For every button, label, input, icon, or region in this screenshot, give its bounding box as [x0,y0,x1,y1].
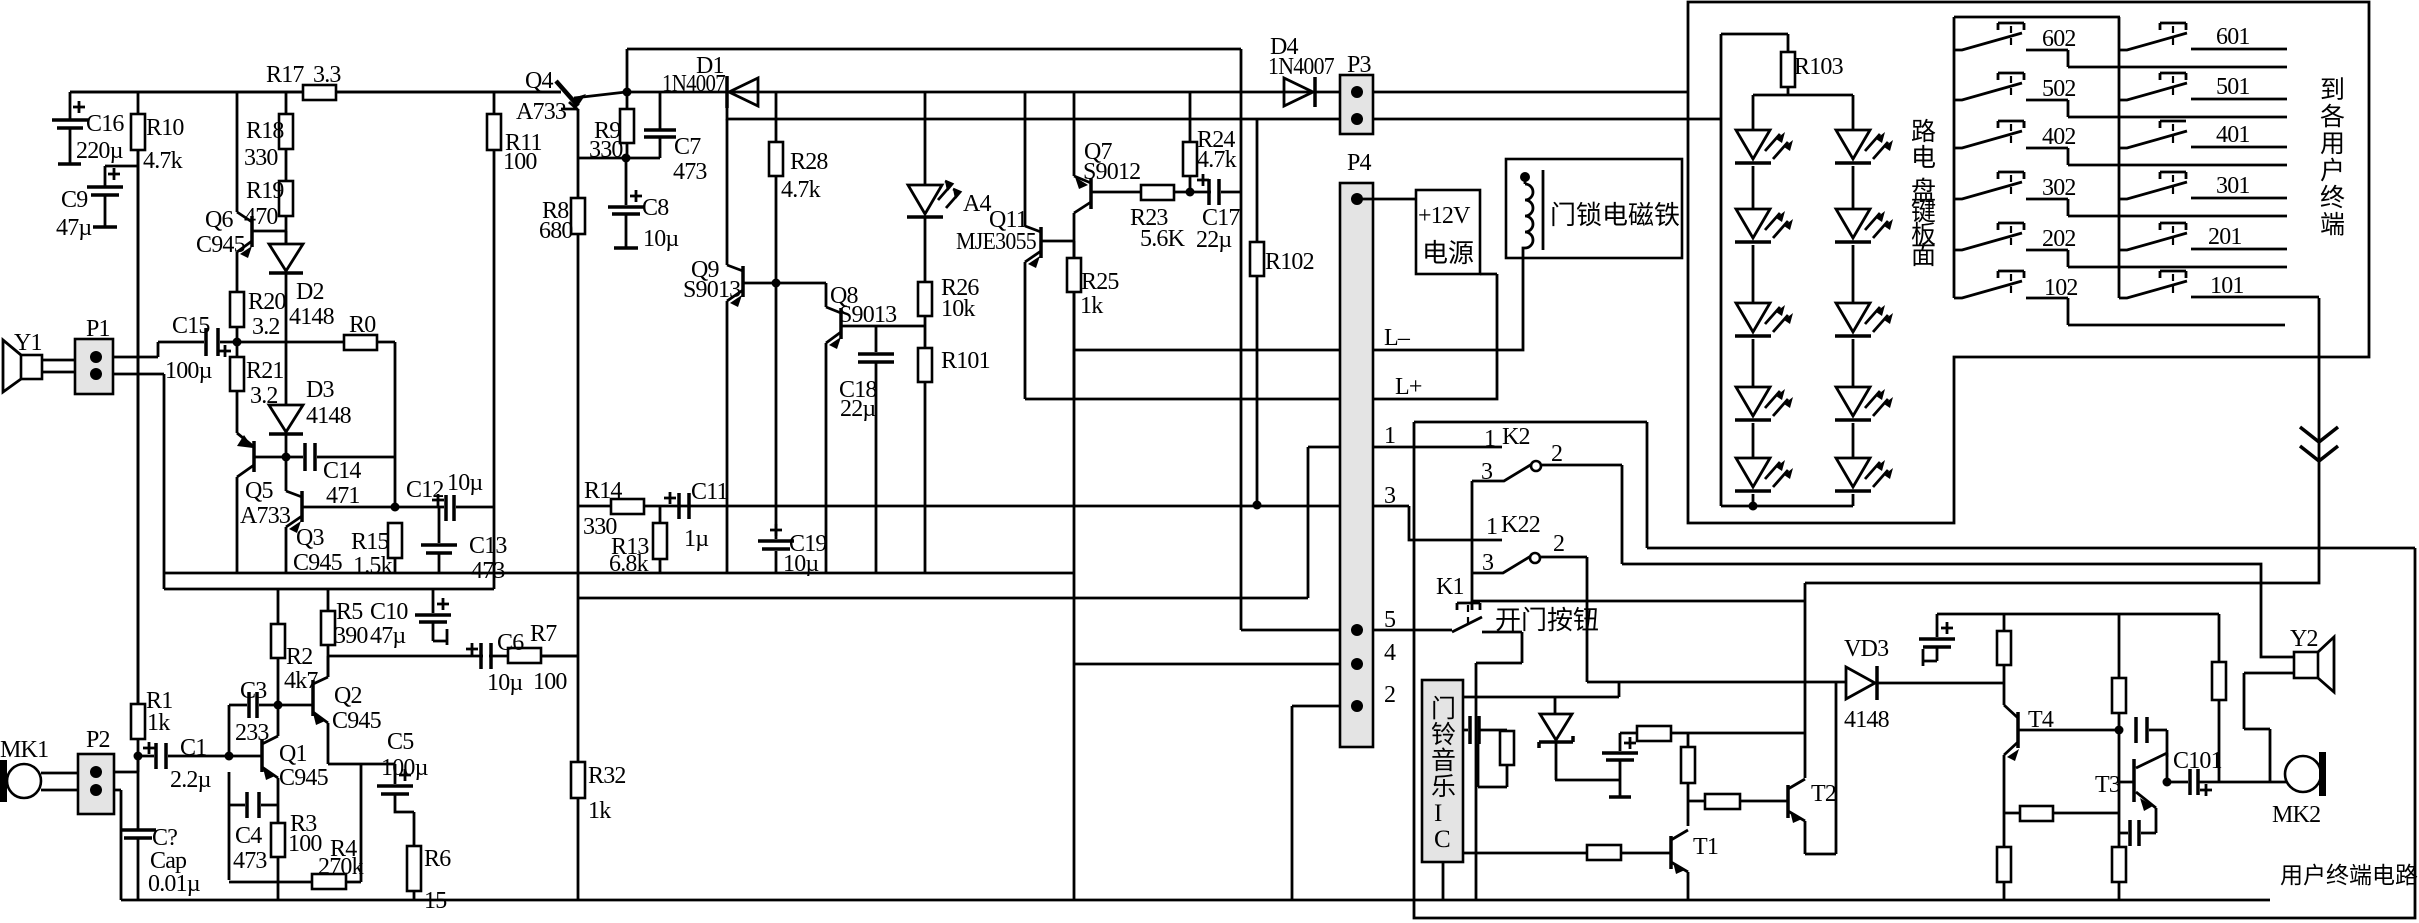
svg-text:15: 15 [424,888,447,914]
svg-text:R6: R6 [424,846,451,872]
resistor R32 [571,762,585,798]
svg-text:用: 用 [2320,131,2345,158]
wire inner-left rail x1721 [1720,34,1723,506]
solenoid coil [1542,170,1545,250]
svg-text:R21: R21 [246,358,284,384]
svg-text:233: 233 [235,720,269,746]
svg-text:4148: 4148 [1844,707,1890,733]
switch K22 [1473,556,1531,573]
resistor R13 [659,506,662,523]
wire riser x494 C12-wire to rail B [493,508,496,589]
svg-text:6.8k: 6.8k [609,551,649,577]
svg-text:Q4: Q4 [525,68,554,94]
svg-text:4148: 4148 [306,403,352,429]
resistor R24 [1189,92,1192,192]
wire P4 pin1 to +12V box [1357,198,1416,201]
capacitor C15 on wire y342 [158,341,237,344]
svg-text:390: 390 [334,623,368,649]
svg-text:100: 100 [503,149,537,175]
svg-text:47µ: 47µ [56,215,92,241]
svg-text:到: 到 [2320,77,2345,104]
wire K2-3 to K22-3 to K1 x1472 [1471,481,1474,603]
switch 201 [2160,223,2186,230]
svg-text:开门按钮: 开门按钮 [1495,606,1599,635]
capacitor C13 [438,507,441,543]
svg-text:S9012: S9012 [1083,159,1140,185]
svg-text:4.7k: 4.7k [781,177,821,203]
user terminal block outline [1414,422,2415,918]
svg-text:270k: 270k [318,854,364,880]
capacitor C16 [69,92,72,119]
wire W2 second rail y119 [727,107,1721,119]
svg-text:K22: K22 [1501,512,1540,538]
svg-text:R14: R14 [584,478,622,504]
wire T2 emitter link [1805,683,1836,854]
LED column stems [1752,95,1755,506]
svg-text:端: 端 [2320,211,2345,239]
svg-text:1N4007: 1N4007 [662,71,726,97]
svg-text:1N4007: 1N4007 [1268,54,1335,80]
svg-text:电: 电 [1911,144,1936,172]
resistor R25 [1073,241,1076,258]
node junction T4 base/R/cap [2115,726,2124,735]
svg-text:MJE3055: MJE3055 [956,229,1037,255]
svg-text:R18: R18 [246,118,284,144]
resistor R9 [626,92,629,158]
microphone MK1 [0,760,7,802]
svg-text:471: 471 [326,483,360,509]
svg-text:终: 终 [2320,184,2345,212]
LED A4 [924,92,927,185]
svg-text:402: 402 [2042,124,2076,150]
svg-text:C: C [1434,826,1451,853]
node junction R1/C1 [134,752,143,761]
wire T2 collector column x1805 [1804,583,1807,778]
doorbell music IC box 门铃音乐IC [1422,680,1463,862]
switch 301 [2160,172,2186,179]
svg-text:22µ: 22µ [840,396,876,422]
wire column x1075 (Q7/R25/L+) down to bus [1073,92,1076,900]
svg-text:乐: 乐 [1431,773,1456,801]
capacitor C101 on wire y782 [2167,781,2286,784]
svg-text:MK1: MK1 [0,737,48,763]
switch 501 [2160,73,2186,80]
svg-text:201: 201 [2208,224,2242,250]
svg-text:100µ: 100µ [165,358,213,384]
wire Q2 emitter leg [328,764,395,882]
svg-text:+12V: +12V [1418,203,1471,229]
transistor Q8 [826,283,841,573]
node junction R9 bottom [622,154,631,163]
svg-text:1: 1 [1486,514,1497,540]
svg-text:C101: C101 [2173,748,2222,774]
svg-text:R19: R19 [246,178,284,204]
connector P2 [78,754,114,814]
diode D3 [269,342,303,432]
SWITCH ARRAY [1954,17,2120,298]
svg-text:0.01µ: 0.01µ [148,871,201,897]
svg-text:Y1: Y1 [14,330,42,356]
electrolytic capacitor in bell cell [1619,733,1622,751]
svg-text:C12: C12 [406,477,444,503]
wire Q3 base y507 [302,506,395,509]
zener diode loop [1554,697,1557,714]
transistor Q1 [229,705,278,823]
wire rail A y573 [164,572,1075,575]
switch 401 [2024,121,2186,128]
svg-text:470: 470 [244,204,278,230]
wire LED bottom rail y506 [1721,505,1853,508]
wire Q2 base y705 [278,704,313,707]
svg-text:473: 473 [673,159,707,185]
svg-text:A4: A4 [963,191,992,217]
svg-text:P1: P1 [86,316,110,342]
wire IC bottom pin [1442,862,1445,900]
svg-text:Q1: Q1 [279,741,307,767]
LED keyboard column x1853 top y387 [1836,387,1870,416]
LEFT SECTION [0,85,585,900]
LED keyboard column x1853 top y458 [1836,458,1870,487]
wire P1 top to C15 [113,342,158,357]
transistor Q3 [286,457,302,573]
wire riser x1308 rail C to K2-1 [1307,447,1310,598]
resistor T2 base [1705,794,1740,809]
svg-text:Y2: Y2 [2290,626,2318,652]
LED keyboard column x1753 top y303 [1736,303,1770,332]
svg-text:1k: 1k [588,798,611,824]
wire Q8 base y326 [841,325,925,328]
svg-text:102: 102 [2044,275,2078,301]
transistor Q11 [1025,92,1041,399]
switch 302 [1998,172,2024,179]
svg-text:T3: T3 [2095,772,2121,798]
svg-text:面: 面 [1911,243,1936,270]
wire K box right edge x1647 down [1646,422,1649,548]
wire P4 pin5 y630 [1241,629,1452,632]
svg-text:4.7k: 4.7k [143,148,183,174]
switch 202 [1998,223,2024,230]
svg-text:R10: R10 [146,115,184,141]
LED keyboard column x1753 top y209 [1736,209,1770,238]
svg-text:47µ: 47µ [370,623,406,649]
svg-text:3.2: 3.2 [252,314,280,340]
wire Q4 collector corner [561,108,578,111]
resistor R5 [327,589,330,677]
svg-text:2.2µ: 2.2µ [170,767,212,793]
svg-text:L+: L+ [1395,374,1422,400]
capacitor C14 on wire y457 [286,456,395,459]
svg-text:S9013: S9013 [839,302,897,328]
node junction R102/P4-3 wire [1253,501,1262,510]
wire switch box top rail y17 [1954,16,2120,19]
wire column x577 Q4 collector / R8 / R32 [577,109,580,900]
svg-text:C6: C6 [497,630,524,656]
node junction D3/Q5 base/C14 [282,453,291,462]
node junction C1/Q1 base [225,752,234,761]
wire P4 pin2 y706 [1292,705,1357,708]
svg-text:1k: 1k [147,710,170,736]
svg-text:T1: T1 [1693,834,1718,860]
wire P1 bottom down [113,374,164,589]
svg-text:C11: C11 [691,479,728,505]
svg-text:Q2: Q2 [334,683,362,709]
wire IC pin1 y697 [1463,682,1619,697]
svg-text:5.6K: 5.6K [1140,226,1186,252]
svg-text:1: 1 [1384,423,1395,449]
svg-text:C16: C16 [86,111,124,137]
svg-text:R0: R0 [349,312,376,338]
svg-text:P2: P2 [86,727,110,753]
resistor R7 on wire y656 [508,648,541,663]
svg-text:101: 101 [2210,273,2244,299]
resistor R23 on wire y192 [1141,185,1174,200]
resistor R17 [70,91,561,94]
wire IC pin2 rc network [1463,729,1507,732]
svg-text:302: 302 [2042,175,2076,201]
wire C6/R7 wire y656 [328,655,577,658]
resistor R2 [277,589,280,705]
svg-text:301: 301 [2216,173,2250,199]
svg-text:10µ: 10µ [447,470,483,496]
wire R14/C11 rail y506 [577,505,1409,508]
wire Q11 base y241 [1041,240,1074,243]
transistor T1 [1463,852,1671,855]
connector P3 [1340,75,1373,134]
transistor T2 [1786,785,1790,818]
switch 602 [1998,23,2024,30]
wire top rail y614 [1937,613,2219,616]
wire jog to K22-1 [1409,506,1502,540]
svg-text:K1: K1 [1436,574,1464,600]
wire P4 pin4 y664 [1075,663,1357,666]
svg-text:C13: C13 [469,533,507,559]
resistor R28 [775,92,778,283]
resistor R19 [279,181,293,216]
switch 502 [1998,73,2024,80]
svg-text:C7: C7 [674,134,701,160]
svg-text:用户终端电路: 用户终端电路 [2280,863,2418,888]
capacitor C11 on wire y506 [679,493,689,519]
LED keyboard column x1853 top y209 [1836,209,1870,238]
node junction LED bottom [1749,502,1758,511]
wire chevron feedback y581 [1805,298,2319,583]
resistor R101 [918,348,932,382]
wire T3 collector to C101 [2166,753,2169,782]
svg-text:202: 202 [2042,226,2076,252]
svg-text:电源: 电源 [1422,239,1474,268]
node junction C15/R20/R21 [233,338,242,347]
svg-text:C4: C4 [235,823,262,849]
svg-text:S9013: S9013 [683,277,741,303]
resistor lower mid column [2112,847,2126,882]
svg-text:R7: R7 [530,621,557,647]
transistor Q6 [237,92,252,292]
capacitor C8 [625,158,628,205]
svg-text:C14: C14 [323,458,361,484]
svg-text:L–: L– [1384,325,1411,351]
svg-text:330: 330 [589,137,623,163]
node junction R28/Q9 base [772,279,781,288]
svg-text:100: 100 [533,669,567,695]
svg-text:C1: C1 [180,735,206,761]
wire +12V box link y274 [1480,273,1497,276]
KEYBOARD SECTION [1721,34,1893,511]
svg-text:户: 户 [2320,157,2345,185]
svg-text:473: 473 [471,558,505,584]
svg-text:10µ: 10µ [783,551,819,577]
svg-text:C945: C945 [293,550,343,576]
svg-text:10µ: 10µ [643,226,679,252]
MIDDLE SECTION [487,76,1315,573]
resistor R1 [137,150,140,704]
wire inner rail y34 [1721,33,1788,36]
svg-text:P4: P4 [1347,150,1372,176]
wire riser y49 to W1 at x627 [626,49,629,92]
wire y548 to right edge [1647,547,2415,550]
wire rail B y589 [164,588,494,591]
svg-text:D3: D3 [306,377,335,403]
speaker Y2 [2294,652,2318,678]
microphone MK2 [2285,756,2321,792]
wire bottom bus y900 [121,899,2270,902]
wire Q9 base y283 [743,282,826,285]
svg-text:Q3: Q3 [296,525,325,551]
node junction C101 [2163,778,2172,787]
resistor R21 [230,357,244,391]
transistor Q7 [1074,176,1091,213]
diode D4 on wire W1 [1284,78,1313,106]
svg-text:D2: D2 [296,279,324,305]
wire R0 right leg down x395 [394,342,397,507]
switch K2 [1472,464,1532,481]
transistor T4 [2016,712,2020,748]
wire left pole rail x1954 [1953,17,1956,298]
capacitor C17 on wire y192 [1209,179,1219,205]
svg-text:3: 3 [1482,550,1494,576]
svg-text:1µ: 1µ [684,526,709,552]
svg-text:100µ: 100µ [381,755,429,781]
wire P2 bottom to bus [114,790,121,900]
svg-text:I: I [1434,800,1442,827]
LED keyboard column x1853 top y130 [1836,130,1870,159]
svg-text:330: 330 [244,145,278,171]
svg-text:R25: R25 [1081,269,1119,295]
chevron to user terminals [2300,427,2338,461]
wire rail C y598 [577,597,1308,600]
svg-text:R20: R20 [248,289,286,315]
wire T2 base y801 [1688,800,1788,803]
resistor R102 [1256,119,1259,242]
svg-text:R5: R5 [336,599,363,625]
keyboard block outline 面板键盘电路 box [1688,2,2369,523]
svg-text:R103: R103 [1794,54,1844,80]
wire T4 emitter rail y813 [2004,812,2119,815]
svg-text:473: 473 [233,848,267,874]
BELL IC CELL [1443,666,2004,900]
svg-text:22µ: 22µ [1196,227,1232,253]
resistor mid vertical in bell cell [1687,733,1690,747]
switch 101 [2160,271,2186,278]
svg-text:铃: 铃 [1431,721,1456,749]
svg-text:C15: C15 [172,313,210,339]
resistor small on IC pin2 [1500,731,1514,765]
wire y564 to Y2 [1622,564,2294,657]
svg-text:门锁电磁铁: 门锁电磁铁 [1550,201,1680,230]
svg-text:R32: R32 [588,763,626,789]
wire LED top rail y95 [1753,94,1853,97]
wire drop x1292 to bottom bus [1291,706,1294,900]
resistor R10 [137,92,140,704]
svg-text:3: 3 [1481,459,1493,485]
LED keyboard column x1753 top y458 [1736,458,1770,487]
resistor R18 [285,92,288,181]
capacitor C18 [875,326,878,352]
resistor T4 load [2003,614,2006,631]
svg-text:2: 2 [1553,531,1564,557]
resistor R26 [918,282,932,316]
wire C3 riser x229 [228,705,231,756]
capacitor C5 [394,764,397,784]
capacitor C3 on wire y705 [229,704,278,707]
capacitor C4 on wire y805 [229,772,278,880]
capacitor C7 [659,92,662,129]
svg-text:C9: C9 [61,187,88,213]
svg-text:Q5: Q5 [245,478,274,504]
node junction Q1 collector/C3/Q2 base [274,701,283,710]
capacitor top-left in terminal cell [1936,614,1939,637]
wire riser x1241 from y49 down to pin5 [1240,49,1243,630]
svg-text:3: 3 [1384,483,1396,509]
wire top stub of K-relay area y422 [1414,421,1647,424]
svg-text:220µ: 220µ [76,138,124,164]
capacitor lower on wire y833 [2119,832,2156,835]
svg-text:路: 路 [1911,118,1936,146]
transistor T3 [2132,759,2136,802]
wire right pole rail x2119 [2118,17,2121,298]
svg-text:R28: R28 [790,149,828,175]
capacitor C1 on wire y756 [138,755,229,758]
svg-text:1: 1 [1484,426,1495,452]
svg-text:门: 门 [1431,695,1456,723]
svg-text:各: 各 [2320,103,2345,131]
svg-text:1k: 1k [1080,293,1103,319]
svg-text:C945: C945 [196,232,246,258]
svg-text:R17: R17 [266,62,304,88]
capacitor C2 [120,830,156,838]
LED keyboard column x1753 top y130 [1736,130,1770,159]
svg-text:602: 602 [2042,26,2076,52]
wire chevron line left segment y601 [1589,600,1805,603]
resistor R3 [271,823,285,857]
wire Q5 base y457 [254,456,286,459]
resistor R103 [1787,34,1790,52]
svg-text:501: 501 [2216,74,2250,100]
svg-text:C3: C3 [240,678,267,704]
capacitor C19 [775,283,778,573]
wire top rail W1 left segment (base of Q4) [70,91,561,94]
svg-text:K2: K2 [1502,424,1530,450]
KRELAYS [1452,461,1622,900]
switch 402 [1998,121,2024,128]
svg-text:A733: A733 [240,503,291,529]
svg-text:MK2: MK2 [2272,802,2320,828]
svg-text:C10: C10 [370,599,408,625]
connector P1 [75,339,113,394]
wire top sub-rail y49 [627,48,1241,51]
capacitor C12 on wire y507 [395,506,494,509]
svg-text:10k: 10k [941,296,975,322]
switch 102 [1998,271,2024,278]
